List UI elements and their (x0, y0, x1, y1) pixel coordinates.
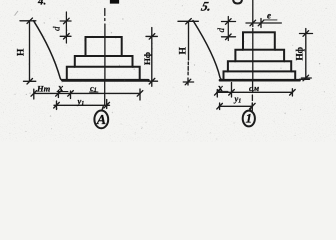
svg-text:Hm: Hm (36, 84, 51, 94)
dimension line H left (vertical) (29, 21, 31, 82)
bottom dimension line 2 left (54, 104, 110, 106)
section mark circle A left (94, 111, 108, 129)
foundation right: bottom slab T4 (224, 71, 296, 79)
dimension line Hf left (vertical) (151, 28, 153, 82)
tick at x=217.3 line1 right (215, 90, 221, 98)
dimension d left: extension line (65, 12, 67, 43)
bottom dimension line 1 right (217, 91, 293, 93)
bottom dimension line 2 right (219, 105, 253, 107)
stray faint mark top-left (15, 11, 19, 16)
slope line left (34, 21, 65, 81)
axis centerline left figure (102, 9, 105, 111)
slash on ground stub left (27, 18, 33, 24)
svg-text:x: x (57, 83, 63, 94)
stray blob top (cut-off mark) (110, 0, 119, 4)
paper texture (0, 0, 336, 142)
svg-text:Нф: Нф (142, 52, 152, 65)
foundation left: middle step T2 (75, 56, 133, 67)
svg-text:Нф: Нф (295, 46, 305, 60)
tick at x=34 line1 left (31, 89, 37, 99)
tick at x=58.4 line1 left (56, 91, 62, 98)
bottom cross of H right (183, 78, 193, 85)
svg-text:x: x (217, 83, 223, 94)
d left bottom tick (60, 34, 71, 40)
dimension d right: extension line (227, 17, 229, 41)
Hf right top tick (300, 31, 313, 37)
scan noise speckles (3, 4, 327, 140)
d right top tick (222, 19, 236, 25)
axis centerline right figure (250, 0, 253, 111)
tick at x=231.5 line1 right (229, 83, 235, 98)
svg-text:А: А (96, 113, 106, 128)
foundation left: top block T1 (86, 37, 122, 56)
slope line right (193, 21, 224, 81)
cut-off circle top edge right figure (233, 0, 242, 4)
foundation right: step T3 (228, 61, 291, 71)
ground line left (thick, under slab) (63, 79, 149, 82)
svg-text:e: e (267, 11, 271, 21)
right cross line2 right (250, 103, 256, 111)
slash on ground stub right (186, 19, 192, 25)
Hf right bottom cross (301, 75, 311, 81)
underline of c1 left (90, 91, 99, 93)
svg-text:4.: 4. (37, 0, 46, 8)
svg-text:d: d (52, 26, 62, 31)
svg-text:d: d (216, 28, 226, 33)
bottom dimension line 1 left (34, 92, 140, 94)
dimension e line (246, 22, 281, 24)
foundation right: top block T1 (243, 32, 275, 49)
tick at x=70.5 line1 left (68, 91, 74, 99)
svg-text:м: м (253, 84, 260, 93)
dimension line H right (vertical, dashed lower part) (188, 21, 190, 60)
Hf left top tick (146, 34, 157, 40)
underline of x left (57, 91, 68, 93)
tick at x=261 on e line (258, 19, 264, 28)
Hf left bottom slash (149, 78, 155, 86)
underline of x right (218, 90, 229, 92)
ground line right (thick) (220, 79, 300, 82)
end cross at x=140 line1 left (137, 89, 143, 100)
dimension line Hf right (vertical) (305, 29, 307, 80)
svg-text:H: H (179, 47, 189, 55)
end cross at x=292.4 line1 right (290, 89, 296, 96)
ground line right thin extension (300, 78, 310, 80)
underline of e (264, 19, 278, 21)
ground line left thin extension (148, 80, 157, 82)
bottom tick of H left (24, 79, 36, 85)
svg-text:1: 1 (246, 111, 253, 126)
svg-text:с: с (249, 83, 253, 93)
foundation right: step T2 (235, 50, 284, 62)
tick at axis on e line (250, 20, 256, 26)
left cross line2 right (217, 103, 223, 110)
svg-text:H: H (17, 48, 27, 56)
section mark circle 1 right (243, 111, 255, 127)
ground surface stub left (20, 20, 36, 22)
foundation left: bottom slab T3 (67, 67, 140, 80)
d right bottom tick (222, 34, 236, 40)
left cross line2 left (54, 101, 60, 110)
d left top tick (60, 18, 71, 24)
right cross line2 left (104, 100, 110, 109)
ground surface stub right (178, 20, 198, 22)
